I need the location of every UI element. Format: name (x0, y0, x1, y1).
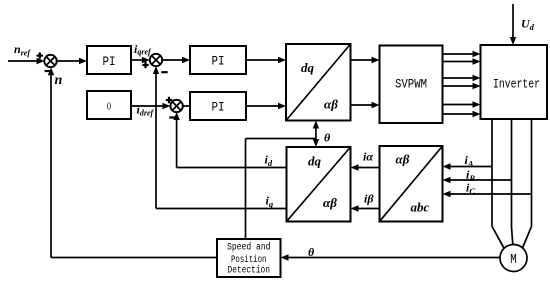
svg-text:iα: iα (363, 150, 373, 164)
wire i_d feedback horizontal (177, 167, 287, 169)
svg-text:iβ: iβ (364, 192, 374, 206)
svg-text:abc: abc (411, 200, 430, 215)
svg-text:M: M (510, 252, 517, 268)
wire i_C tap (443, 191, 532, 197)
wire i_beta (351, 205, 380, 211)
plus sign at S2 (142, 62, 148, 68)
minus sign at S2 (161, 71, 167, 73)
svg-text:n: n (55, 73, 63, 88)
wire PI3 to dq transform (246, 103, 286, 109)
wire S1 to PI1 (57, 58, 87, 64)
wire i_B tap (443, 177, 512, 183)
wire i_A tap (443, 163, 493, 169)
wire i_q feedback horizontal (156, 208, 287, 210)
wire SVPWM to inverter 4 (443, 83, 481, 89)
wire phase A diagonal to motor (492, 226, 504, 248)
wire SVPWM to inverter 1 (443, 51, 481, 57)
wire phase C diagonal to motor (523, 226, 532, 248)
wire i_alpha (351, 164, 380, 170)
wire SVPWM to inverter 5 (443, 101, 481, 107)
wire i_d feedback vertical to S3 (173, 112, 179, 168)
wire inverter phase C vertical (531, 119, 533, 226)
wire PI1 to S2 (131, 57, 150, 63)
wire theta horizontal (246, 138, 316, 140)
wire phase B diagonal to motor (512, 227, 513, 245)
svg-text:Speed and: Speed and (227, 242, 271, 254)
block SVPWM (380, 46, 443, 124)
wire n_ref input (8, 58, 45, 64)
minus sign at S1 (45, 70, 52, 72)
block inverter (481, 45, 548, 119)
svg-text:Detection: Detection (228, 264, 271, 276)
wire inverter phase B vertical (511, 119, 513, 227)
wire n feedback vertical to S1 (48, 67, 54, 257)
svg-text:αβ: αβ (324, 97, 338, 112)
summing junction S2 (150, 54, 162, 66)
summing junction S3 (170, 100, 182, 112)
plus sign at S3 (166, 97, 172, 103)
svg-text:Inverter: Inverter (493, 77, 540, 92)
summing junction S1 (44, 55, 56, 67)
wire SVPWM to inverter 6 (443, 111, 481, 117)
plus sign at S1 (37, 52, 43, 58)
svg-text:SVPWM: SVPWM (395, 77, 427, 92)
block PI2 (190, 46, 246, 74)
wire PI2 to dq transform (246, 57, 286, 63)
wire U_d supply (510, 4, 516, 45)
wire dq output to SVPWM lower (351, 102, 380, 108)
svg-text:αβ: αβ (323, 195, 337, 210)
block speed and position detection (217, 239, 281, 277)
block zero reference (87, 91, 131, 119)
wire dq output to SVPWM upper (351, 57, 380, 63)
wire SVPWM to inverter 2 (443, 58, 481, 64)
wire S3 to PI3 (183, 105, 190, 107)
wire inverter phase A vertical (491, 119, 493, 226)
block PI1 (87, 46, 131, 74)
svg-text:Position: Position (231, 254, 267, 266)
wire SVPWM to inverter 3 (443, 75, 481, 81)
svg-text:PI: PI (103, 54, 116, 69)
block dq to alpha-beta transform (286, 44, 351, 121)
svg-text:PI: PI (212, 100, 225, 115)
svg-text:αβ: αβ (396, 152, 410, 167)
motor M (500, 245, 527, 272)
wire theta from speed block top (245, 139, 247, 240)
block alpha-beta to abc transform (380, 146, 443, 222)
svg-text:θ: θ (308, 245, 315, 259)
block alpha-beta to dq measurement transform (287, 147, 351, 222)
wire zero block to S3 (131, 103, 170, 109)
svg-text:θ: θ (324, 131, 331, 145)
svg-text:0: 0 (107, 101, 112, 113)
svg-text:dq: dq (308, 153, 322, 168)
svg-text:dq: dq (301, 60, 315, 75)
block PI3 (190, 92, 246, 120)
wire n feedback horizontal (51, 257, 217, 259)
wire S2 to PI2 (162, 57, 190, 63)
minus sign at S3 (169, 116, 176, 118)
wire theta double arrow between transforms (313, 121, 319, 148)
wire i_q feedback vertical to S2 (153, 66, 159, 209)
svg-text:PI: PI (212, 54, 225, 69)
wire theta from motor to speed block (281, 254, 501, 260)
